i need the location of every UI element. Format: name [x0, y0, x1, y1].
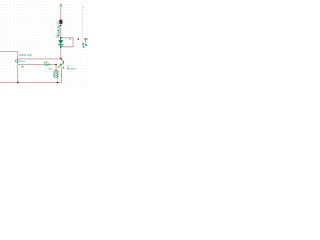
svg-text:mono: mono	[68, 67, 76, 71]
svg-text:(C≋(: (C≋(	[18, 59, 25, 63]
svg-text:SDA0 4(0): SDA0 4(0)	[19, 53, 32, 57]
svg-text:S8050: S8050	[53, 70, 57, 78]
svg-text:Q1S: Q1S	[48, 68, 53, 70]
svg-text:WS2812B: WS2812B	[58, 25, 61, 36]
